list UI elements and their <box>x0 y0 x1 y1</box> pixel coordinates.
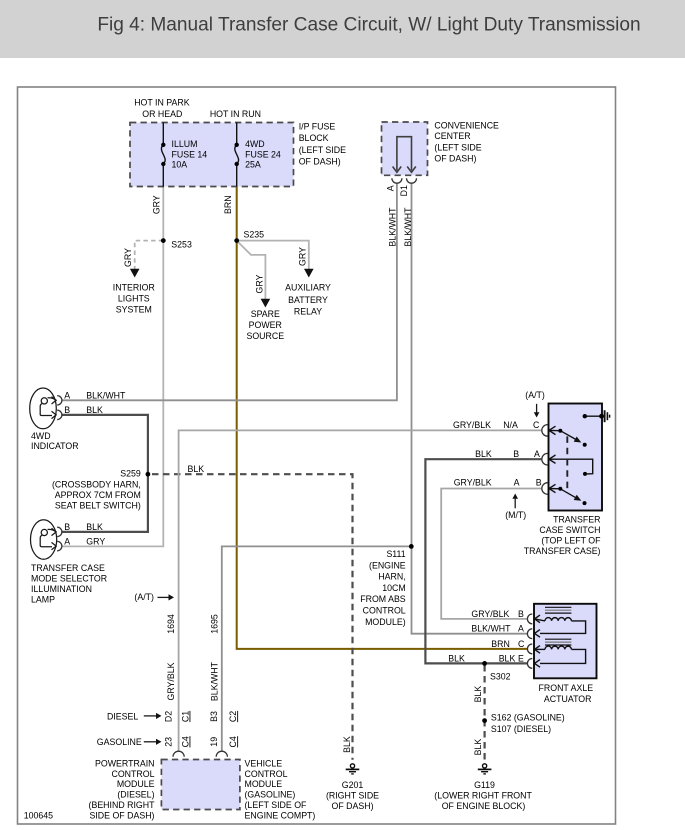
svg-text:BLK/WHT: BLK/WHT <box>403 207 413 247</box>
svg-text:(M/T): (M/T) <box>505 510 526 520</box>
svg-text:BLK: BLK <box>342 736 352 753</box>
svg-text:DIESEL: DIESEL <box>107 712 138 722</box>
svg-text:(CROSSBODY HARN,: (CROSSBODY HARN, <box>52 480 141 490</box>
svg-text:VEHICLE: VEHICLE <box>245 758 283 768</box>
svg-text:D2: D2 <box>163 711 173 722</box>
svg-text:B: B <box>513 449 519 459</box>
svg-text:TRANSFER CASE: TRANSFER CASE <box>31 563 105 573</box>
svg-text:MODULE): MODULE) <box>365 617 406 627</box>
svg-text:RELAY: RELAY <box>294 307 322 317</box>
svg-text:S235: S235 <box>244 229 265 239</box>
svg-text:B: B <box>518 609 524 619</box>
svg-text:OF DASH): OF DASH) <box>434 153 476 163</box>
svg-text:FROM ABS: FROM ABS <box>360 594 406 604</box>
svg-text:N/A: N/A <box>503 420 518 430</box>
svg-text:OF DASH): OF DASH) <box>299 157 341 167</box>
svg-text:100645: 100645 <box>24 811 53 821</box>
svg-text:BLK: BLK <box>86 522 103 532</box>
svg-text:HARN,: HARN, <box>378 572 405 582</box>
svg-text:LAMP: LAMP <box>31 595 55 605</box>
svg-text:CONVENIENCE: CONVENIENCE <box>434 120 499 130</box>
svg-text:C4: C4 <box>228 736 238 747</box>
svg-text:MODE SELECTOR: MODE SELECTOR <box>31 574 107 584</box>
svg-text:GRY/BLK: GRY/BLK <box>453 420 491 430</box>
svg-text:MODULE: MODULE <box>245 779 283 789</box>
svg-text:S302: S302 <box>490 672 511 682</box>
svg-text:OF DASH): OF DASH) <box>331 801 373 811</box>
svg-text:BLOCK: BLOCK <box>299 133 329 143</box>
svg-text:A: A <box>385 185 395 191</box>
svg-text:SPARE: SPARE <box>251 309 280 319</box>
svg-text:C: C <box>533 420 540 430</box>
svg-text:(LEFT SIDE OF: (LEFT SIDE OF <box>245 800 308 810</box>
svg-text:C4: C4 <box>181 736 191 747</box>
svg-text:Fig 4: Manual Transfer Case Ci: Fig 4: Manual Transfer Case Circuit, W/ … <box>97 15 640 36</box>
svg-text:CONTROL: CONTROL <box>363 606 406 616</box>
svg-text:S107 (DIESEL): S107 (DIESEL) <box>491 724 551 734</box>
svg-text:(A/T): (A/T) <box>525 390 545 400</box>
svg-text:POWER: POWER <box>249 320 282 330</box>
svg-text:A: A <box>64 536 70 546</box>
svg-text:D1: D1 <box>399 185 409 196</box>
svg-text:1695: 1695 <box>210 614 220 634</box>
svg-text:GRY: GRY <box>86 536 105 546</box>
svg-text:GRY/BLK: GRY/BLK <box>166 662 176 700</box>
svg-text:A: A <box>534 449 540 459</box>
svg-text:BLK: BLK <box>475 449 492 459</box>
svg-text:4WD: 4WD <box>245 139 265 149</box>
svg-text:B: B <box>64 405 70 415</box>
svg-text:BATTERY: BATTERY <box>288 295 328 305</box>
svg-text:G201: G201 <box>342 780 364 790</box>
svg-text:(BEHIND RIGHT: (BEHIND RIGHT <box>89 800 156 810</box>
svg-text:B3: B3 <box>209 711 219 722</box>
svg-text:GRY/BLK: GRY/BLK <box>471 609 509 619</box>
svg-text:SYSTEM: SYSTEM <box>116 305 152 315</box>
svg-text:1694: 1694 <box>166 614 176 634</box>
svg-text:BLK/WHT: BLK/WHT <box>86 391 126 401</box>
svg-text:FUSE 24: FUSE 24 <box>245 149 281 159</box>
svg-text:BLK: BLK <box>86 405 103 415</box>
svg-text:(TOP LEFT OF: (TOP LEFT OF <box>541 536 601 546</box>
svg-text:E: E <box>518 653 524 663</box>
svg-text:19: 19 <box>209 737 219 747</box>
svg-text:(LEFT SIDE: (LEFT SIDE <box>434 143 481 153</box>
svg-text:ILLUM: ILLUM <box>172 139 198 149</box>
svg-text:BLK/WHT: BLK/WHT <box>210 661 220 701</box>
svg-text:BLK: BLK <box>448 653 465 663</box>
svg-text:(A/T): (A/T) <box>134 592 154 602</box>
svg-text:INDICATOR: INDICATOR <box>31 441 79 451</box>
svg-text:BRN: BRN <box>491 639 510 649</box>
svg-text:(DIESEL): (DIESEL) <box>117 790 154 800</box>
svg-text:(LOWER RIGHT FRONT: (LOWER RIGHT FRONT <box>434 791 532 801</box>
svg-text:BLK: BLK <box>473 739 483 756</box>
svg-text:BRN: BRN <box>223 195 233 214</box>
svg-text:CASE SWITCH: CASE SWITCH <box>539 525 600 535</box>
svg-text:AUXILIARY: AUXILIARY <box>285 282 331 292</box>
svg-text:LIGHTS: LIGHTS <box>118 294 150 304</box>
svg-text:ENGINE COMPT): ENGINE COMPT) <box>245 810 316 820</box>
svg-text:S162 (GASOLINE): S162 (GASOLINE) <box>491 713 565 723</box>
svg-text:BLK: BLK <box>499 653 516 663</box>
svg-text:23: 23 <box>163 737 173 747</box>
svg-text:S111: S111 <box>386 549 405 559</box>
svg-text:CONTROL: CONTROL <box>245 769 288 779</box>
svg-text:CONTROL: CONTROL <box>111 769 154 779</box>
svg-text:(LEFT SIDE: (LEFT SIDE <box>299 145 346 155</box>
svg-text:I/P FUSE: I/P FUSE <box>299 122 336 132</box>
svg-text:POWERTRAIN: POWERTRAIN <box>95 758 154 768</box>
svg-text:GRY: GRY <box>254 274 264 293</box>
svg-text:FUSE 14: FUSE 14 <box>172 149 208 159</box>
svg-text:ACTUATOR: ACTUATOR <box>544 694 592 704</box>
svg-text:INTERIOR: INTERIOR <box>113 283 155 293</box>
svg-text:APPROX 7CM FROM: APPROX 7CM FROM <box>55 490 141 500</box>
svg-text:CENTER: CENTER <box>434 131 470 141</box>
svg-text:SOURCE: SOURCE <box>246 331 284 341</box>
svg-text:MODULE: MODULE <box>117 779 155 789</box>
svg-text:BLK/WHT: BLK/WHT <box>471 623 511 633</box>
svg-text:B: B <box>64 522 70 532</box>
svg-text:BLK/WHT: BLK/WHT <box>387 207 397 247</box>
svg-text:BLK: BLK <box>188 464 205 474</box>
svg-text:(RIGHT SIDE: (RIGHT SIDE <box>326 791 379 801</box>
svg-text:HOT IN PARK: HOT IN PARK <box>134 98 190 108</box>
svg-text:A: A <box>514 478 520 488</box>
svg-text:10CM: 10CM <box>382 583 405 593</box>
svg-text:GRY: GRY <box>152 195 162 214</box>
svg-text:SIDE OF DASH): SIDE OF DASH) <box>89 810 154 820</box>
svg-text:C: C <box>518 639 525 649</box>
svg-text:BLK: BLK <box>473 686 483 703</box>
svg-text:C2: C2 <box>228 711 238 722</box>
svg-text:HOT IN RUN: HOT IN RUN <box>210 109 261 119</box>
svg-text:GRY/BLK: GRY/BLK <box>454 478 492 488</box>
svg-text:OF ENGINE BLOCK): OF ENGINE BLOCK) <box>442 801 526 811</box>
svg-text:(ENGINE: (ENGINE <box>369 560 406 570</box>
svg-text:B: B <box>536 478 542 488</box>
svg-text:S253: S253 <box>171 239 192 249</box>
svg-text:OR HEAD: OR HEAD <box>142 109 182 119</box>
svg-text:GRY: GRY <box>298 247 308 266</box>
svg-text:G119: G119 <box>474 780 495 790</box>
svg-text:FRONT AXLE: FRONT AXLE <box>539 683 594 693</box>
svg-text:S259: S259 <box>120 468 141 478</box>
svg-text:TRANSFER: TRANSFER <box>553 514 600 524</box>
svg-text:A: A <box>518 623 524 633</box>
svg-text:25A: 25A <box>245 160 261 170</box>
svg-text:SEAT BELT SWITCH): SEAT BELT SWITCH) <box>55 501 141 511</box>
svg-text:ILLUMINATION: ILLUMINATION <box>31 584 92 594</box>
svg-text:GASOLINE: GASOLINE <box>97 737 142 747</box>
svg-text:C1: C1 <box>181 711 191 722</box>
svg-text:10A: 10A <box>172 160 188 170</box>
svg-text:GRY: GRY <box>123 248 133 267</box>
svg-text:4WD: 4WD <box>31 431 51 441</box>
svg-text:A: A <box>64 391 70 401</box>
svg-text:(GASOLINE): (GASOLINE) <box>245 790 296 800</box>
svg-text:TRANSFER CASE): TRANSFER CASE) <box>524 546 601 556</box>
